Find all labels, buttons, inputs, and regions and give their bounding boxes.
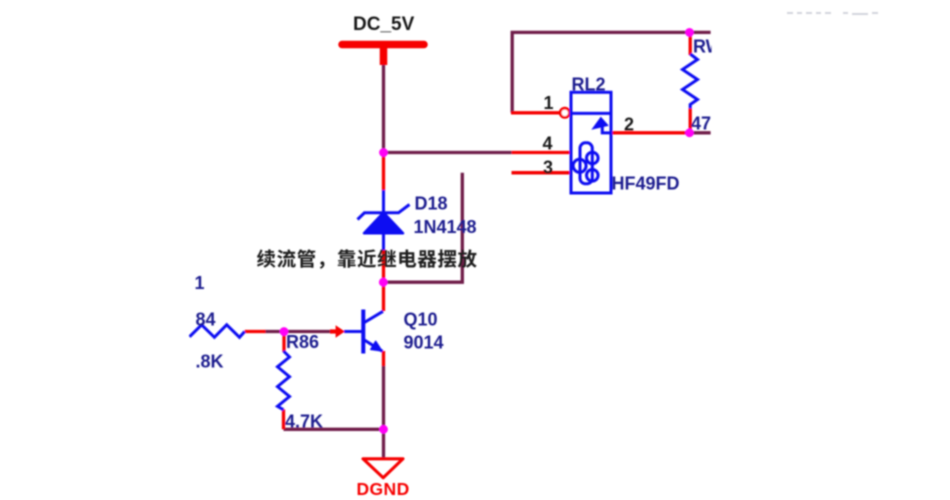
svg-text:R86: R86 [286, 332, 319, 352]
svg-text:84: 84 [196, 310, 216, 330]
svg-text:2: 2 [624, 115, 634, 135]
svg-text:HF49FD: HF49FD [612, 174, 680, 194]
svg-text:RL2: RL2 [572, 75, 606, 95]
svg-text:9014: 9014 [404, 333, 444, 353]
svg-text:DC_5V: DC_5V [353, 14, 415, 35]
svg-text:3: 3 [543, 158, 553, 178]
svg-text:Q10: Q10 [404, 310, 438, 330]
svg-text:1: 1 [195, 273, 205, 293]
svg-text:1: 1 [544, 93, 554, 113]
svg-text:4.7K: 4.7K [285, 412, 323, 432]
svg-text:47: 47 [691, 113, 711, 133]
svg-text:1N4148: 1N4148 [414, 217, 477, 237]
svg-text:4: 4 [543, 134, 553, 154]
svg-text:DGND: DGND [357, 479, 410, 499]
svg-text:.8K: .8K [196, 352, 224, 372]
svg-text:D18: D18 [415, 194, 448, 214]
svg-text:RW: RW [693, 37, 723, 57]
